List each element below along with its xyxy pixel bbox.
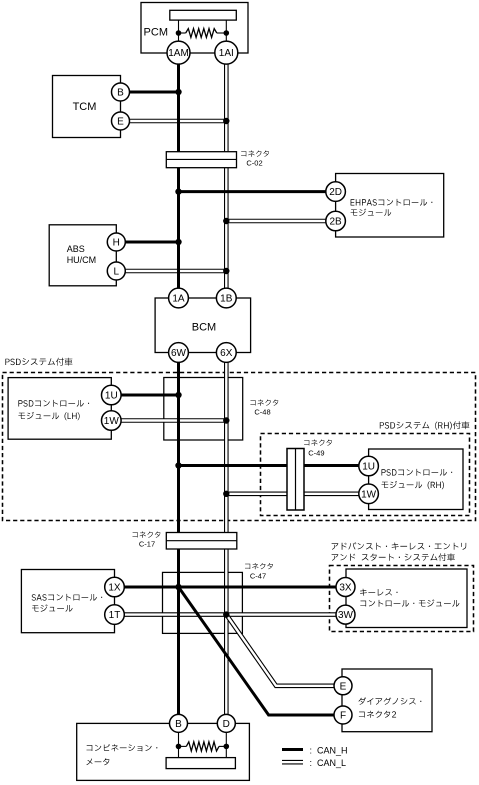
- svg-text:PCM: PCM: [144, 27, 168, 39]
- combination meter box: [77, 723, 250, 780]
- junction SAS 1X: [175, 584, 181, 590]
- BCM box: [155, 298, 251, 353]
- svg-text:6W: 6W: [171, 348, 187, 359]
- label PSDコントロール・ (RH): [382, 469, 453, 476]
- svg-text:3W: 3W: [338, 610, 354, 621]
- PSD control module (RH) box: [369, 449, 463, 510]
- junction EHPAS 2D: [175, 188, 181, 194]
- label アンド スタート・システム付車: [332, 553, 455, 561]
- svg-text:2B: 2B: [329, 217, 342, 228]
- svg-text:ABS: ABS: [67, 244, 85, 254]
- PCM terminating resistor bar: [170, 10, 237, 20]
- svg-text:6X: 6X: [220, 348, 233, 359]
- svg-text:BCM: BCM: [192, 322, 216, 334]
- terminal PCM 1AI: [215, 41, 238, 64]
- combination meter resistor bar: [166, 758, 235, 769]
- wire CAN_H branch to diagnosis F: [179, 587, 335, 715]
- svg-text:C-47: C-47: [250, 572, 266, 581]
- label メータ: [87, 758, 110, 765]
- wire: meter B to resistor: [178, 732, 180, 757]
- junction dot PCM right: [224, 30, 230, 36]
- terminal PSD LH 1U: [102, 385, 122, 405]
- wire: PCM bar to resistor left: [178, 20, 180, 41]
- terminal SAS 1X: [105, 577, 125, 597]
- svg-text:1W: 1W: [361, 489, 377, 500]
- label PSDシステム (RH)付車: [380, 421, 470, 430]
- label コネクタ2: [359, 711, 396, 718]
- connector C-49 bar: [287, 449, 304, 511]
- TCM box: [53, 76, 121, 138]
- svg-text:1U: 1U: [362, 462, 375, 473]
- terminal BCM 1B: [216, 288, 236, 308]
- wire SAS 1X to keyless 3X: [124, 586, 336, 589]
- keyless control module box: [346, 569, 467, 628]
- PSD control module (LH) box: [8, 378, 111, 440]
- wire: PCM bar to resistor right: [225, 20, 227, 41]
- wire TCM E to CAN_L: [130, 119, 227, 124]
- junction ABS L: [223, 268, 229, 274]
- junction dot meter left: [176, 744, 182, 750]
- svg-text:TCM: TCM: [73, 101, 97, 113]
- junction ABS H: [175, 239, 181, 245]
- junction TCM E: [223, 118, 229, 124]
- svg-text:2D: 2D: [329, 187, 342, 198]
- wire CAN_H bus upper segment (1AM to 1A): [177, 64, 180, 288]
- svg-text:CAN_H: CAN_H: [317, 746, 348, 756]
- EHPAS control module box: [336, 174, 444, 238]
- terminal keyless 3X: [336, 578, 355, 597]
- junction PSD RH branch H: [175, 462, 181, 468]
- svg-text:H: H: [113, 238, 120, 249]
- junction EHPAS 2B: [223, 218, 229, 224]
- dashed box: PSD system (RH) equipped vehicles: [261, 434, 470, 516]
- wire SAS 1T to keyless 3W: [124, 612, 336, 617]
- label SASコントロール・: [32, 594, 103, 601]
- terminal ABS L: [107, 262, 125, 280]
- junction dot PCM left: [176, 30, 182, 36]
- terminal PSD RH 1U: [359, 456, 379, 476]
- svg-text:3X: 3X: [339, 583, 352, 594]
- svg-text:L: L: [114, 267, 120, 278]
- connector C-02 bar: [166, 152, 236, 168]
- resistor inside PCM: [179, 32, 186, 34]
- svg-text:B: B: [117, 88, 124, 99]
- terminal diagnosis E: [334, 677, 352, 695]
- svg-text:C-17: C-17: [139, 540, 155, 549]
- label アドバンスト・キーレス・エントリ: [332, 542, 467, 550]
- label コネクタ C-49: [304, 440, 332, 446]
- terminal PCM 1AM: [167, 41, 190, 64]
- terminal meter D: [217, 714, 235, 732]
- terminal meter B: [170, 714, 188, 732]
- terminal keyless 3W: [336, 605, 355, 624]
- svg-text:B: B: [175, 719, 182, 730]
- label コネクタ C-17: [133, 532, 161, 538]
- wire CAN_L branch to PSD RH 1W: [226, 491, 359, 496]
- terminal PSD LH 1W: [102, 411, 122, 431]
- label コンビネーション・: [87, 744, 158, 751]
- terminal BCM 1A: [169, 288, 189, 308]
- terminal BCM 6X: [216, 343, 236, 363]
- junction PSD LH 1U: [175, 392, 181, 398]
- terminal SAS 1T: [105, 605, 125, 625]
- junction PSD LH 1W: [223, 417, 229, 423]
- wire PSD LH 1W to CAN_L: [121, 418, 226, 423]
- svg-text:1A: 1A: [172, 294, 185, 305]
- wire ABS H to CAN_H: [125, 241, 178, 244]
- label キーレス・: [360, 589, 398, 596]
- dashed box: advanced keyless entry and start system equipped vehicles: [330, 566, 474, 632]
- PCM box: [141, 3, 248, 54]
- svg-text:C-48: C-48: [254, 408, 270, 417]
- resistor inside combination meter: [179, 745, 187, 747]
- wire CAN_H branch to PSD RH 1U: [179, 464, 359, 467]
- label モジュール (LH): [18, 412, 79, 420]
- wire CAN_L bus lower segment (6X to meter D): [224, 362, 229, 714]
- svg-text:1AI: 1AI: [219, 48, 234, 59]
- dashed box: PSD system equipped vehicles: [3, 373, 476, 521]
- wire TCM B to CAN_H: [130, 91, 179, 94]
- svg-text:F: F: [340, 711, 346, 722]
- legend CAN_H sample line: [282, 748, 303, 751]
- svg-text:1AM: 1AM: [168, 48, 189, 59]
- wire CAN_L branch to diagnosis E: [226, 615, 334, 686]
- junction TCM B: [175, 89, 181, 95]
- svg-text:CAN_L: CAN_L: [317, 758, 346, 768]
- wire ABS L to CAN_L: [125, 269, 226, 274]
- connector C-47 box: [163, 572, 243, 633]
- terminal PSD RH 1W: [359, 484, 379, 504]
- terminal ABS H: [107, 233, 125, 251]
- svg-text:C-02: C-02: [246, 159, 262, 168]
- wire CAN_L bus upper segment (1AI to 1B): [224, 64, 229, 288]
- connector C-17 bar: [166, 533, 237, 550]
- terminal EHPAS 2B: [326, 211, 346, 231]
- label コネクタ C-48: [250, 400, 278, 406]
- wire EHPAS 2B to CAN_L: [226, 219, 325, 224]
- label PSDコントロール・ (LH): [18, 400, 89, 407]
- junction PSD RH branch L: [223, 491, 229, 497]
- label コネクタ C-47: [245, 563, 273, 569]
- wire: meter D to resistor: [225, 732, 227, 757]
- svg-text:1T: 1T: [109, 610, 121, 621]
- svg-text:1B: 1B: [220, 294, 233, 305]
- wire CAN_H bus lower segment (6W to meter B): [177, 362, 180, 714]
- wire EHPAS 2D to CAN_H: [179, 190, 326, 193]
- label PSDシステム付車: [5, 358, 72, 366]
- svg-text:1W: 1W: [104, 416, 120, 427]
- label モジュール (SAS): [32, 604, 73, 611]
- svg-text:1U: 1U: [105, 391, 118, 402]
- junction dot meter right: [224, 744, 230, 750]
- connector C-48 box: [164, 378, 243, 441]
- svg-text:D: D: [223, 719, 230, 730]
- label モジュール (RH): [382, 481, 445, 489]
- diagnosis connector 2 box: [342, 669, 432, 732]
- legend CAN_L sample line: [282, 760, 303, 765]
- terminal diagnosis F: [334, 706, 352, 724]
- label コネクタ C-02: [241, 151, 269, 157]
- ABS HU/CM box: [49, 225, 116, 286]
- junction SAS 1T: [223, 611, 229, 617]
- label ダイアグノシス・: [359, 697, 422, 704]
- label EHPASコントロール・: [351, 199, 433, 206]
- SAS control module box: [21, 570, 114, 633]
- svg-text:E: E: [340, 681, 347, 692]
- svg-text::: :: [310, 746, 313, 756]
- terminal EHPAS 2D: [326, 182, 346, 202]
- label モジュール (EHPAS): [351, 209, 392, 216]
- terminal BCM 6W: [169, 343, 189, 363]
- wire PSD LH 1U to CAN_H: [121, 394, 178, 397]
- svg-text:HU/CM: HU/CM: [67, 255, 97, 265]
- terminal TCM B: [112, 83, 130, 101]
- terminal TCM E: [112, 112, 130, 130]
- label コントロール・モジュール: [360, 599, 459, 606]
- svg-text:C-49: C-49: [308, 449, 324, 458]
- svg-text::: :: [310, 758, 313, 768]
- svg-text:E: E: [117, 117, 124, 128]
- svg-text:1X: 1X: [108, 583, 121, 594]
